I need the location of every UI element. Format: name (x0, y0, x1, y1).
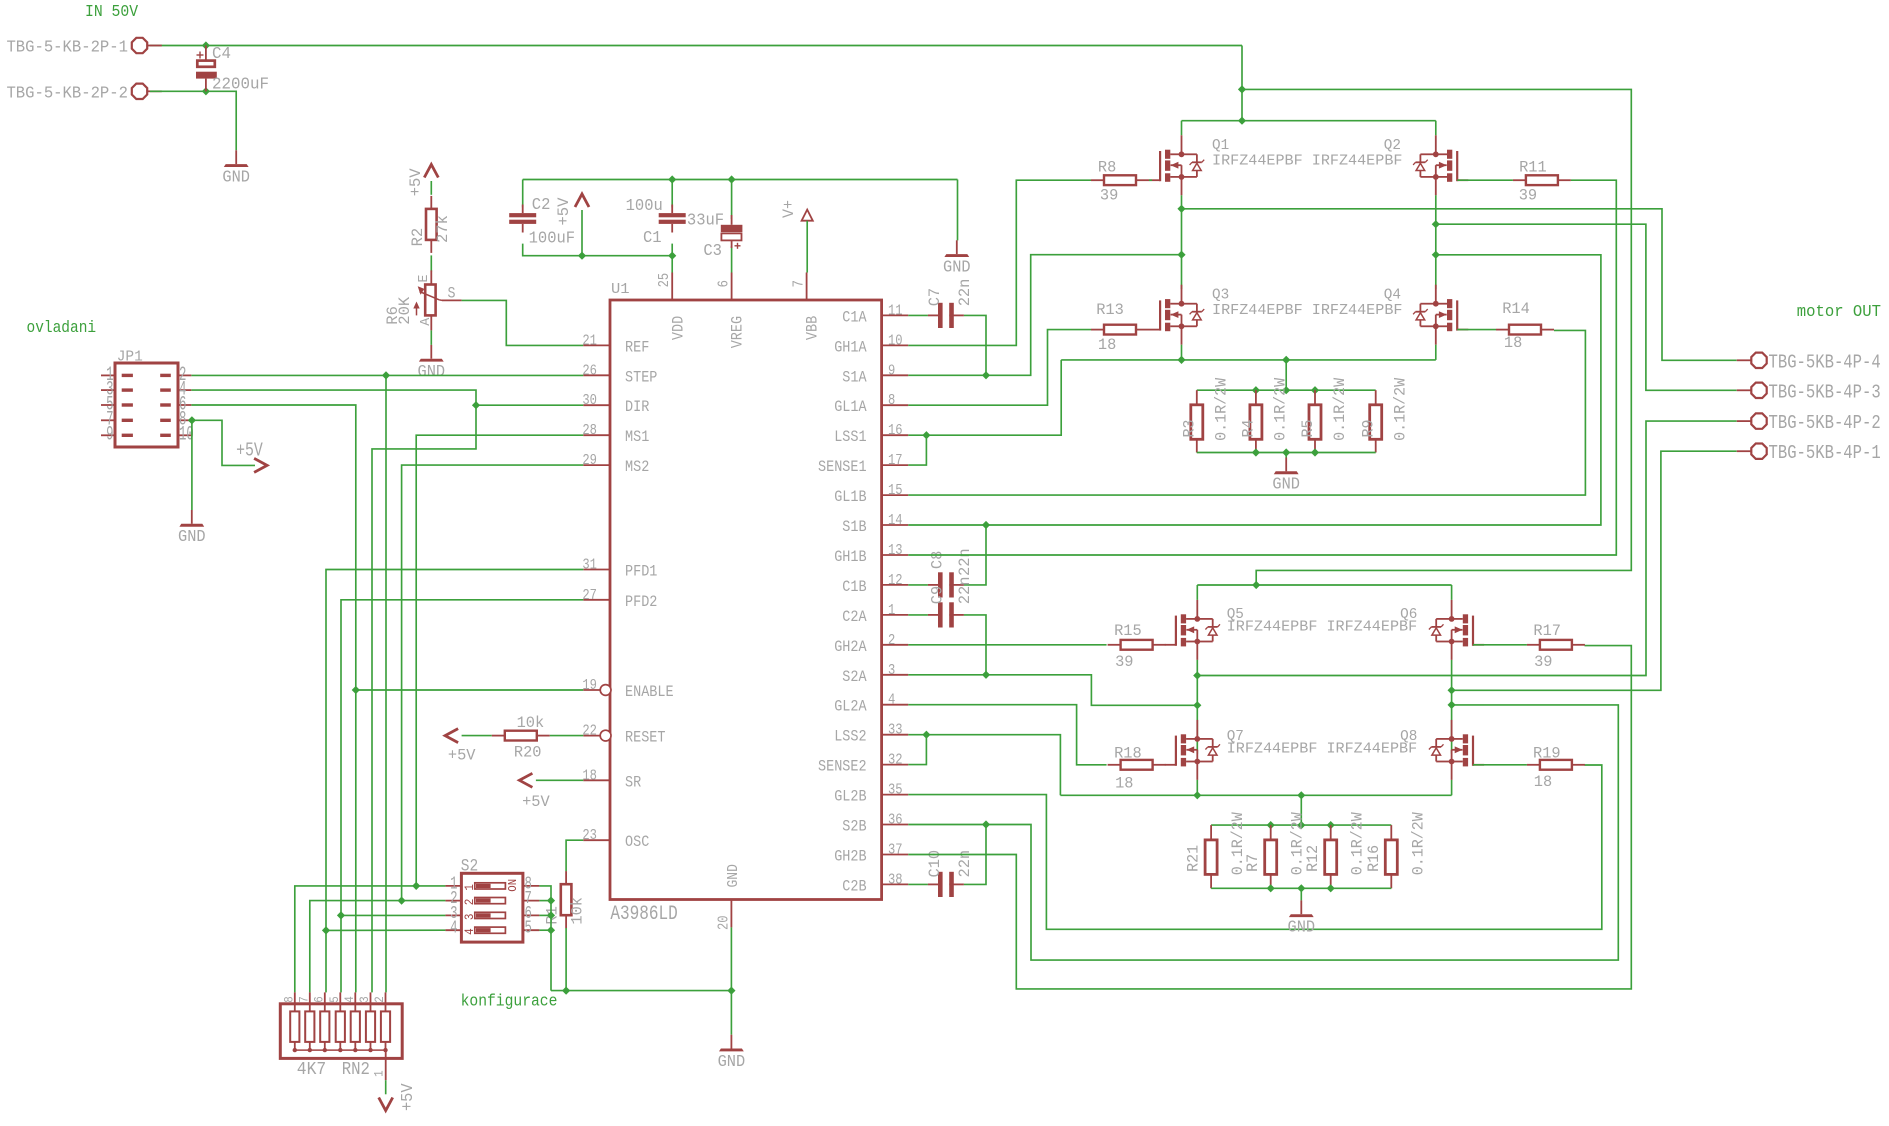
svg-text:9: 9 (888, 362, 895, 379)
transistor Q7 IRFZ44EPBF (1165, 720, 1220, 780)
junction C4 bottom (202, 87, 210, 95)
svg-text:GND: GND (943, 258, 971, 277)
svg-text:38: 38 (888, 871, 903, 888)
junction STEP branch (382, 371, 390, 379)
resistor R14 18 (1496, 325, 1554, 335)
resistor network RN2 4K7 (280, 1004, 402, 1059)
svg-text:R13: R13 (1096, 301, 1124, 319)
wire GL2B to R19 (908, 765, 1602, 929)
junction S1A to U1 (1177, 251, 1185, 259)
wire stub R11 (1570, 179, 1572, 181)
C3 plus sign (735, 243, 741, 249)
resistor R17 39 (1527, 640, 1585, 650)
U1 pin 10 GH1A (834, 332, 908, 356)
wire MS1 to S2 pin1 row (416, 435, 583, 886)
wire C1B to C8 (908, 584, 928, 586)
U1 pin 15 GL1B (834, 482, 908, 506)
svg-text:31: 31 (582, 557, 597, 574)
wire Q8 gate to R19 (1473, 764, 1527, 766)
transistor Q8 IRFZ44EPBF (1429, 720, 1484, 780)
svg-text:R11: R11 (1519, 158, 1547, 176)
svg-text:GH1B: GH1B (834, 548, 866, 566)
wire LSS1 to sense rail (908, 360, 1061, 435)
junction C9 tap on S2A (982, 671, 990, 679)
U1 pin 30 DIR (582, 392, 649, 416)
svg-text:OSC: OSC (625, 833, 649, 851)
svg-text:18: 18 (1115, 775, 1133, 793)
wire C2 top drop (522, 180, 524, 208)
junction top rail R12 (1327, 821, 1335, 829)
svg-text:7: 7 (298, 996, 312, 1003)
wire SENSE1 tie (908, 435, 926, 465)
junction R1 bottom (562, 987, 570, 995)
svg-text:6: 6 (716, 280, 733, 287)
U1 pin 25 VDD (656, 273, 687, 341)
svg-text:+5V: +5V (555, 197, 573, 226)
wire Q3 source to rail (1181, 345, 1183, 360)
ground GND lower sense (1288, 900, 1316, 936)
resistor R2 (426, 196, 437, 253)
junction S2A out (1193, 671, 1201, 679)
U1 pin 32 SENSE2 (818, 752, 908, 776)
svg-text:TBG-5KB-4P-1: TBG-5KB-4P-1 (1769, 442, 1881, 464)
RN2 element pin 5 (328, 992, 345, 1052)
resistor R18 18 (1108, 760, 1166, 770)
wire sense top rail upper (1197, 389, 1376, 391)
wire S2B to bridge (908, 705, 1618, 960)
wire V+ to VBB (806, 221, 808, 273)
junction link at rail (1282, 356, 1290, 364)
resistor R20 10k (492, 731, 550, 741)
wire STEP vertical to RN2 p2 (385, 375, 387, 992)
svg-text:33: 33 (888, 722, 903, 739)
U1 pin 38 C2B (842, 871, 908, 895)
svg-text:33uF: 33uF (687, 211, 724, 230)
ground GND under JP1 (178, 510, 206, 546)
wire 50V to lower bridge (1242, 89, 1631, 585)
svg-text:7: 7 (791, 280, 808, 287)
ground GND under C4 (222, 150, 250, 186)
wire S1B to bridge (908, 255, 1601, 525)
wire JP1 pin10 to GND (191, 420, 193, 510)
svg-text:+5V: +5V (236, 439, 263, 461)
svg-text:R15: R15 (1114, 622, 1142, 640)
wire lower sense rail (1060, 794, 1451, 796)
svg-text:27: 27 (582, 587, 597, 604)
transistor Q5 IRFZ44EPBF (1165, 600, 1220, 660)
wire LSS2 to sense rail (908, 735, 1060, 796)
svg-text:C2: C2 (532, 195, 551, 214)
svg-text:22: 22 (582, 723, 597, 740)
svg-text:R14: R14 (1502, 300, 1530, 318)
wire C3 to VREG (731, 246, 733, 273)
svg-text:16: 16 (888, 422, 903, 439)
svg-text:10k: 10k (517, 714, 545, 732)
junction S2 common at 930.2 (547, 926, 555, 934)
svg-text:R19: R19 (1533, 744, 1561, 762)
wire Q2 gate to R11 (1457, 179, 1513, 181)
svg-text:SR: SR (625, 773, 641, 791)
sense resistor R9 0.1R/2W (1370, 390, 1382, 452)
svg-text:IRFZ44EPBF IRFZ44EPBF: IRFZ44EPBF IRFZ44EPBF (1212, 303, 1402, 319)
U1 pin 21 REF (582, 332, 649, 356)
svg-text:+5V: +5V (398, 1083, 417, 1111)
S2 position 4 rocker (445, 919, 539, 939)
junction bottom GND lower (1297, 884, 1305, 892)
svg-text:motor OUT: motor OUT (1797, 303, 1881, 322)
svg-text:IRFZ44EPBF IRFZ44EPBF: IRFZ44EPBF IRFZ44EPBF (1227, 741, 1417, 757)
svg-text:PFD2: PFD2 (625, 593, 657, 611)
svg-text:12: 12 (888, 572, 903, 589)
svg-text:VDD: VDD (669, 316, 687, 340)
U1 pin 29 MS2 (582, 452, 649, 476)
wire GH2B to R17 (908, 646, 1631, 989)
svg-text:TBG-5KB-4P-4: TBG-5KB-4P-4 (1769, 351, 1881, 373)
resistor R8 39 (1091, 175, 1149, 185)
svg-text:100u: 100u (626, 196, 663, 215)
junction bottom R12 (1327, 884, 1335, 892)
ground GND under R6 (418, 345, 446, 381)
svg-text:4K7: 4K7 (297, 1059, 326, 1080)
svg-text:GND: GND (1272, 475, 1300, 494)
U1 pin 18 SR (582, 767, 641, 791)
junction C8 tap on S1B (982, 521, 990, 529)
junction S1A out (1177, 205, 1185, 213)
svg-text:REF: REF (625, 338, 649, 356)
junction S1B to U1 (1432, 251, 1440, 259)
sense resistor R5 0.1R/2W (1309, 390, 1321, 452)
wire RN2 p8 / S2 pin1 (295, 886, 446, 993)
wire rail link lower (1300, 795, 1302, 825)
svg-text:konfigurace: konfigurace (461, 993, 558, 1012)
svg-text:R3: R3 (1181, 420, 1199, 438)
wire S2 right pin row 915.4 (539, 914, 551, 916)
svg-text:TBG-5-KB-2P-2: TBG-5-KB-2P-2 (6, 85, 128, 104)
svg-text:ovladani: ovladani (27, 319, 97, 338)
wire PFD1 to RN2 p6 (325, 930, 327, 992)
svg-text:MS2: MS2 (625, 458, 649, 476)
switch S2 (461, 873, 523, 942)
svg-text:C9: C9 (928, 586, 946, 604)
U1 pin 19 ENABLE (582, 677, 673, 701)
wire Q2 drain drop (1435, 121, 1437, 136)
svg-text:1: 1 (462, 884, 477, 891)
U1 pin 16 LSS1 (834, 422, 908, 446)
op-amp/driver IC U1 A3986LD (610, 300, 882, 900)
wire GL1A to R13 (908, 330, 1091, 406)
wire RN2 p7 / S2 pin2 (310, 901, 446, 993)
capacitor C1 100u/33uF (659, 205, 686, 233)
wire C9 to S2A (964, 615, 986, 675)
wire STEP to JP1 pin2 (191, 374, 583, 376)
junction PFD2 at S2 p3 (337, 911, 345, 919)
junction bottom rail R4 (1252, 448, 1260, 456)
junction GND rail at pin20 (727, 987, 735, 995)
svg-text:+5V: +5V (522, 793, 550, 811)
svg-text:35: 35 (888, 782, 903, 799)
svg-text:25: 25 (656, 273, 673, 288)
svg-text:6: 6 (313, 996, 327, 1003)
svg-text:DIR: DIR (625, 398, 649, 416)
junction PFD1 at S2 p4 (322, 926, 330, 934)
U1 pin 11 C1A (842, 302, 908, 326)
RN2 element pin 3 (358, 992, 375, 1052)
svg-text:GL2B: GL2B (834, 788, 866, 806)
wire Q5 source to Q7 drain (1196, 660, 1198, 754)
junction LSS1/SENSE1 tie (922, 431, 930, 439)
sense resistor R4 0.1R/2W (1250, 390, 1262, 452)
junction 50V branch (1238, 85, 1246, 93)
wire Q5 drain drop (1196, 585, 1198, 600)
svg-text:GL1A: GL1A (834, 398, 867, 416)
capacitor C2 100uF (509, 205, 536, 233)
wire rail link (1285, 360, 1287, 390)
capacitor C9 22n (928, 602, 964, 627)
svg-text:C1: C1 (643, 228, 662, 247)
svg-text:2: 2 (462, 899, 477, 906)
svg-text:GND: GND (178, 527, 206, 546)
svg-text:R18: R18 (1114, 744, 1142, 762)
svg-text:9: 9 (106, 424, 113, 447)
svg-text:21: 21 (582, 332, 597, 349)
svg-text:22n: 22n (956, 577, 974, 605)
svg-text:IRFZ44EPBF IRFZ44EPBF: IRFZ44EPBF IRFZ44EPBF (1227, 620, 1417, 636)
wire Q6 gate to R17 (1473, 644, 1527, 646)
svg-text:23: 23 (582, 827, 597, 844)
wire C1 top drop (671, 180, 673, 208)
svg-text:R7: R7 (1244, 854, 1262, 872)
U1 pin 8 GL1A (834, 392, 908, 416)
wire PFD2 to RN2 p5 (340, 915, 342, 992)
svg-text:GND: GND (718, 1052, 746, 1071)
junction C7 tap on S1A (982, 371, 990, 379)
connector pad TBG-5KB-4P-3 R (1737, 383, 1767, 398)
capacitor C10 22n (928, 872, 964, 897)
wire GND drop right (957, 180, 959, 241)
transistor Q2 IRFZ44EPBF (1413, 135, 1468, 195)
U1 pin 7 VBB (791, 273, 822, 341)
svg-text:2200uF: 2200uF (212, 76, 269, 95)
sense resistor R7 0.1R/2W (1265, 825, 1277, 888)
svg-text:22n: 22n (956, 548, 974, 576)
wire SENSE2 tie (908, 735, 926, 765)
resistor R11 39 (1513, 175, 1571, 185)
wire +5V arrow drop (581, 210, 583, 256)
svg-text:36: 36 (888, 812, 903, 829)
junction S2B out (1448, 686, 1456, 694)
svg-text:STEP: STEP (625, 368, 657, 386)
U1 pin 6 VREG (716, 273, 747, 349)
supply +5V arrow JP1 +5V (254, 458, 267, 472)
svg-text:RESET: RESET (625, 729, 666, 747)
svg-text:S: S (448, 285, 456, 303)
svg-text:4: 4 (450, 919, 457, 939)
U1 pin 26 STEP (582, 362, 657, 386)
connector pad TBG-5-KB-2P-2 L (132, 84, 162, 99)
svg-text:IRFZ44EPBF IRFZ44EPBF: IRFZ44EPBF IRFZ44EPBF (1212, 154, 1402, 170)
supply +5V arrow SR +5V (519, 773, 532, 787)
transistor Q1 IRFZ44EPBF (1149, 135, 1204, 195)
junction bottom R7 (1267, 884, 1275, 892)
junction S2 common at 915.4 (547, 911, 555, 919)
svg-text:32: 32 (888, 752, 903, 769)
svg-text:18: 18 (582, 767, 597, 784)
svg-text:5: 5 (525, 919, 532, 939)
svg-text:GND: GND (418, 362, 446, 381)
junction JP1 pin8 +5V (188, 416, 196, 424)
RN2 element pin 7 (298, 992, 315, 1052)
wire sense bottom rail lower (1211, 887, 1391, 889)
junction 50V at upper rail (1238, 117, 1246, 125)
wire C1 to VDD (671, 244, 673, 273)
svg-text:15: 15 (888, 482, 903, 499)
wire to GND upper sense (1285, 453, 1287, 458)
svg-text:28: 28 (582, 422, 597, 439)
JP1 pins 9/10 (101, 424, 194, 447)
junction top rail R5 (1311, 386, 1319, 394)
svg-text:C7: C7 (926, 288, 944, 306)
svg-text:C8: C8 (928, 551, 946, 569)
U1 pin 20 GND (715, 864, 742, 930)
U1 pin 9 S1A (842, 362, 908, 386)
svg-text:ON: ON (506, 879, 520, 892)
svg-text:GL1B: GL1B (834, 488, 866, 506)
svg-text:TBG-5-KB-2P-1: TBG-5-KB-2P-1 (6, 39, 128, 58)
wire upper bridge rail (1182, 120, 1436, 122)
svg-text:Q2: Q2 (1384, 138, 1401, 154)
junction 50V at C4 top (202, 41, 210, 49)
svg-text:30: 30 (582, 392, 597, 409)
RN2 element pin 4 (343, 992, 360, 1052)
supply +5V arrow RN2 +5V (379, 1098, 393, 1111)
svg-text:PFD1: PFD1 (625, 563, 657, 581)
svg-text:GND: GND (222, 168, 250, 187)
svg-text:3: 3 (358, 996, 372, 1003)
svg-text:IN 50V: IN 50V (85, 3, 138, 22)
resistor R13 18 (1091, 325, 1149, 335)
wire S1B to TBG-4P-3 (1436, 224, 1737, 390)
svg-text:GH1A: GH1A (834, 338, 867, 356)
capacitor C7 22n (928, 303, 964, 328)
resistor R19 18 (1527, 760, 1585, 770)
svg-text:17: 17 (888, 452, 903, 469)
wire GH1B to R11 (908, 180, 1616, 555)
wire GH2A to R15 (908, 644, 1106, 646)
wire Q1 drain drop (1181, 121, 1183, 136)
supply +5V arrow +5V between C2 C1 (575, 194, 589, 207)
wire U1 GND drop (730, 927, 732, 1034)
svg-text:100uF: 100uF (529, 229, 576, 248)
wire RN2 p1 to +5V (385, 1080, 387, 1094)
svg-text:10: 10 (888, 332, 903, 349)
wire lower bridge rail (1197, 584, 1451, 586)
U1 pin 4 GL2A (834, 692, 908, 716)
capacitor C3 (polarized) (721, 215, 743, 248)
svg-text:0.1R/2W: 0.1R/2W (1392, 377, 1410, 441)
U1 pin 31 PFD1 (582, 557, 657, 581)
wire upper sense rail (1061, 359, 1436, 361)
wire 50V from TBG-2P-1 to bridge column (150, 45, 1242, 47)
wire GL1B to R14 (908, 330, 1585, 495)
svg-text:+5V: +5V (448, 746, 476, 764)
svg-text:R21: R21 (1185, 845, 1203, 872)
S2 position 2 rocker (445, 889, 539, 909)
svg-text:8: 8 (888, 392, 895, 409)
svg-text:R20: R20 (514, 744, 542, 762)
svg-text:29: 29 (582, 452, 597, 469)
svg-text:S1A: S1A (842, 368, 867, 386)
wire GND from TBG-2P-2 (150, 91, 236, 150)
svg-text:R5: R5 (1299, 420, 1317, 438)
wire C10 to S2B (964, 825, 986, 885)
junction bottom rail R5 (1311, 448, 1319, 456)
svg-text:GH2B: GH2B (834, 848, 866, 866)
svg-text:3: 3 (462, 914, 477, 921)
svg-text:C2A: C2A (842, 608, 867, 626)
wire +5V to R20 (462, 735, 492, 737)
svg-text:R16: R16 (1365, 845, 1383, 872)
U1 pin 23 OSC (582, 827, 649, 851)
svg-text:18: 18 (1534, 773, 1552, 791)
junction ENABLE junction (352, 686, 360, 694)
wire C1A to C7 (908, 314, 928, 316)
svg-text:39: 39 (1534, 653, 1552, 671)
U1 pin 12 C1B (842, 572, 908, 596)
svg-text:GND: GND (1288, 918, 1316, 937)
svg-text:18: 18 (1098, 336, 1116, 354)
transistor Q4 IRFZ44EPBF (1413, 285, 1468, 345)
wire S2 right pin row 900.6 (539, 900, 551, 902)
svg-text:RN2: RN2 (342, 1059, 370, 1080)
wire C7 to S1A (964, 315, 986, 375)
capacitor C4 2200uF (196, 46, 217, 92)
resistor R15 39 (1108, 640, 1166, 650)
sense resistor R16 0.1R/2W (1385, 825, 1397, 888)
wire R8-Q1 gate (1149, 179, 1152, 181)
wire S1A to TBG-4P-4 (1182, 209, 1737, 360)
svg-text:39: 39 (1115, 653, 1133, 671)
svg-text:C3: C3 (703, 241, 722, 260)
wire S2 pin3 to PFD2 (341, 914, 445, 916)
wire sense bottom rail upper (1197, 452, 1376, 454)
wire S2B to TBG-4P-1 (1452, 451, 1737, 690)
wire +5V arrow to R2 (430, 181, 432, 195)
transistor Q3 IRFZ44EPBF (1149, 285, 1204, 345)
junction link at rail lower (1297, 791, 1305, 799)
RN2 common rail (295, 1049, 386, 1051)
svg-text:37: 37 (888, 842, 903, 859)
svg-text:14: 14 (888, 512, 903, 529)
svg-text:R12: R12 (1304, 845, 1322, 872)
svg-text:13: 13 (888, 542, 903, 559)
wire C8 to S1B (964, 525, 986, 585)
wire Q1 source to Q3 drain (1181, 195, 1183, 289)
wire R2 to R6 (430, 255, 432, 271)
svg-text:R2: R2 (409, 228, 427, 247)
wire GL2A to R18 (908, 705, 1106, 765)
junction GND rail / C1 (668, 175, 676, 183)
svg-text:R9: R9 (1360, 420, 1378, 438)
U1 pin 37 GH2B (834, 842, 908, 866)
junction MS2 at S2 p2 (398, 897, 406, 905)
S2 position 3 rocker (445, 904, 539, 924)
junction DIR branch (472, 401, 480, 409)
wire S1A to bridge (908, 255, 1181, 376)
wire GH1A to R8 (908, 180, 1091, 345)
junction 50V at lower rail (1252, 581, 1260, 589)
wire +5V to SR (536, 779, 583, 781)
wire Q4 source to rail (1435, 345, 1437, 360)
